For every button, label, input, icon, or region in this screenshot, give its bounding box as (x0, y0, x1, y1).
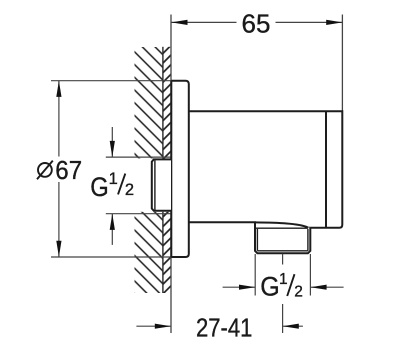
svg-text:67: 67 (55, 155, 82, 185)
svg-text:1: 1 (279, 271, 288, 288)
svg-text:2: 2 (125, 181, 134, 199)
svg-text:G: G (90, 172, 109, 202)
svg-text:2: 2 (294, 283, 303, 300)
svg-text:G: G (260, 271, 280, 301)
svg-text:65: 65 (242, 8, 271, 38)
svg-text:1: 1 (109, 170, 118, 188)
svg-text:27-41: 27-41 (196, 312, 253, 342)
